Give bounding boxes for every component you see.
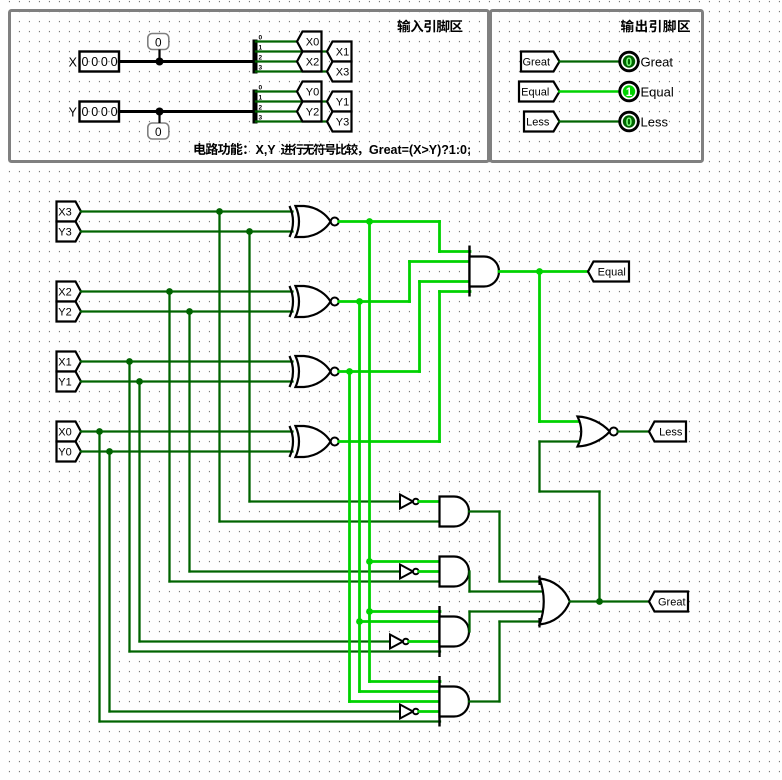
svg-text:Equal: Equal <box>641 84 674 99</box>
svg-text:Equal: Equal <box>521 87 549 99</box>
svg-text:3: 3 <box>259 65 263 72</box>
svg-text:0: 0 <box>101 55 108 69</box>
svg-text:Great=(X>Y)?1:0;: Great=(X>Y)?1:0; <box>369 143 471 157</box>
svg-text:Less: Less <box>526 117 550 129</box>
svg-text:Great: Great <box>658 597 686 609</box>
svg-text:Less: Less <box>659 427 683 439</box>
svg-text:X0: X0 <box>58 427 71 439</box>
svg-text:3: 3 <box>259 115 263 122</box>
svg-text:X3: X3 <box>336 67 349 79</box>
svg-text:0: 0 <box>82 105 89 119</box>
svg-text:Y3: Y3 <box>336 117 349 129</box>
svg-text:Equal: Equal <box>598 267 626 279</box>
svg-text:Y0: Y0 <box>306 87 319 99</box>
svg-text:1: 1 <box>626 87 633 99</box>
svg-text:0: 0 <box>259 35 263 42</box>
svg-text:1: 1 <box>259 95 263 102</box>
svg-text:X1: X1 <box>336 47 349 59</box>
svg-text:0: 0 <box>626 57 632 69</box>
svg-text:0: 0 <box>111 105 118 119</box>
svg-text:0: 0 <box>101 105 108 119</box>
svg-text:2: 2 <box>259 55 263 62</box>
svg-text:0: 0 <box>91 55 98 69</box>
svg-text:X1: X1 <box>58 357 71 369</box>
svg-text:0: 0 <box>91 105 98 119</box>
svg-text:X2: X2 <box>306 57 319 69</box>
svg-text:0: 0 <box>82 55 89 69</box>
svg-text:Y1: Y1 <box>58 377 71 389</box>
svg-text:Y2: Y2 <box>306 107 319 119</box>
svg-text:X: X <box>69 55 78 69</box>
svg-text:X,Y: X,Y <box>256 143 277 157</box>
svg-text:X3: X3 <box>58 207 71 219</box>
svg-text:X0: X0 <box>306 37 319 49</box>
svg-text:0: 0 <box>111 55 118 69</box>
svg-text:0: 0 <box>626 117 632 129</box>
svg-text:Y: Y <box>69 105 78 119</box>
svg-text:2: 2 <box>259 105 263 112</box>
svg-text:Great: Great <box>522 57 550 69</box>
svg-text:Y2: Y2 <box>58 307 71 319</box>
svg-text:X2: X2 <box>58 287 71 299</box>
svg-text:0: 0 <box>155 36 162 50</box>
svg-text:1: 1 <box>259 45 263 52</box>
svg-text:Y1: Y1 <box>336 97 349 109</box>
svg-text:Y0: Y0 <box>58 447 71 459</box>
svg-text:Y3: Y3 <box>58 227 71 239</box>
svg-text:Less: Less <box>641 114 669 129</box>
svg-text:0: 0 <box>259 85 263 92</box>
svg-text:Great: Great <box>641 54 674 69</box>
svg-text:0: 0 <box>155 125 162 139</box>
